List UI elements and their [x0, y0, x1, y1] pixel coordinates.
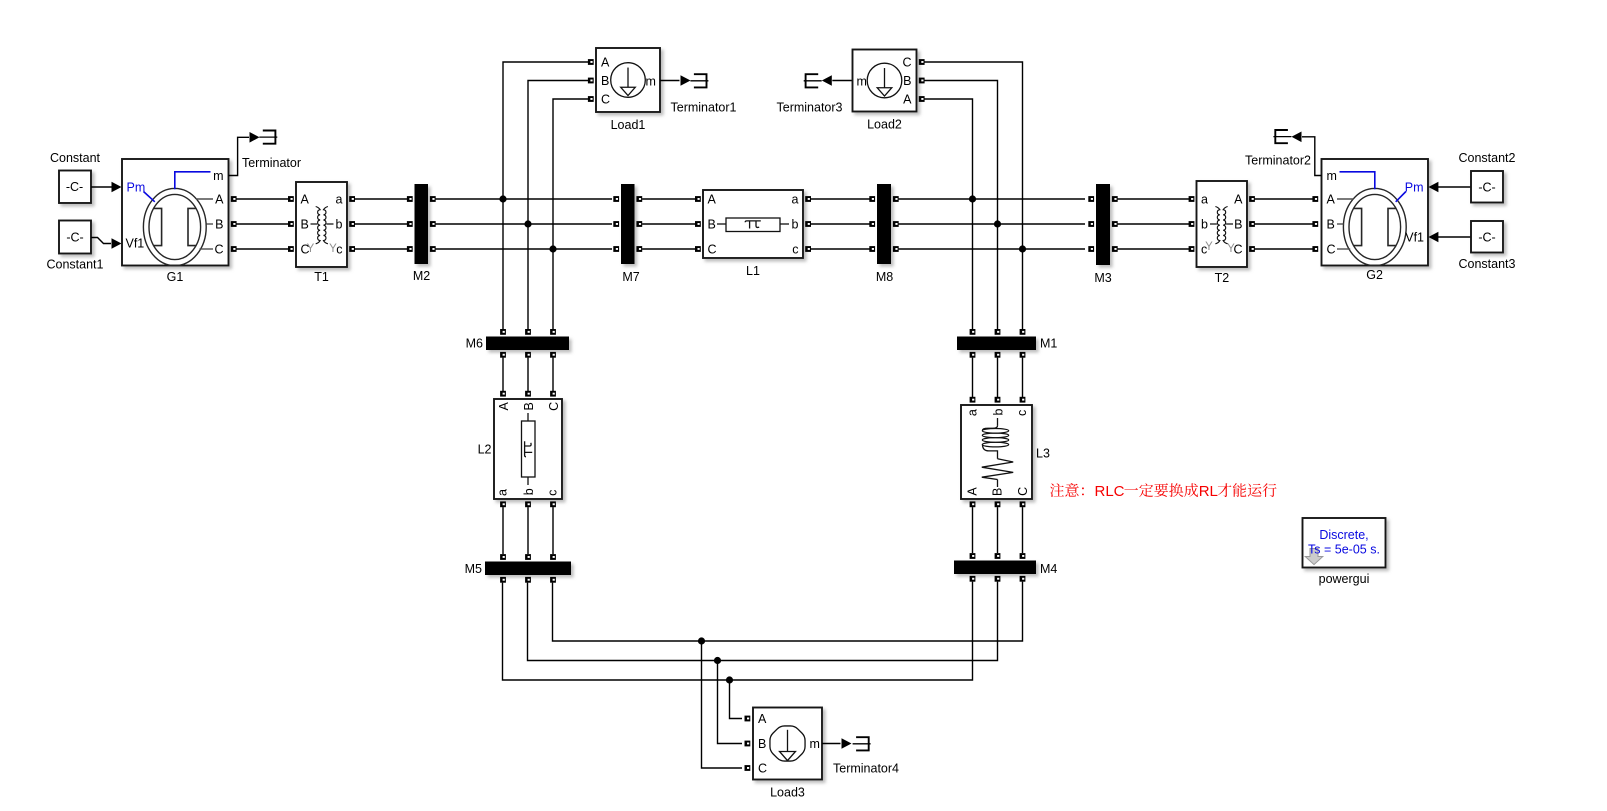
wire M2.C to M7.C: [436, 248, 612, 250]
port square L3 top 1: [970, 397, 976, 403]
port square M7.B left: [613, 221, 619, 227]
svg-text:Terminator: Terminator: [242, 156, 301, 170]
svg-text:G1: G1: [167, 270, 184, 284]
svg-text:RLC: RLC: [1095, 483, 1125, 500]
svg-text:B: B: [522, 402, 536, 410]
port square M1 bottom 3: [1020, 352, 1026, 358]
bus bar M3: [1096, 184, 1110, 265]
svg-text:L1: L1: [746, 264, 760, 278]
junction tap A at x503: [499, 195, 506, 202]
powergui gray arrow: [1305, 549, 1323, 565]
svg-text:Constant: Constant: [50, 151, 101, 165]
svg-text:A: A: [1327, 193, 1336, 207]
port square L1.A: [695, 196, 701, 202]
port square L1.c out: [805, 246, 811, 252]
port square L3 bottom 1: [970, 501, 976, 507]
svg-text:-C-: -C-: [1478, 231, 1495, 245]
bus bar M1: [957, 337, 1036, 351]
port square M6 bottom 2: [525, 352, 531, 358]
machine icon G1: [143, 188, 206, 265]
sink Terminator1: [690, 74, 708, 87]
port square L2 top 3: [550, 391, 556, 397]
wire M5.b to M4 mid: [528, 582, 998, 661]
svg-text:Terminator2: Terminator2: [1245, 154, 1311, 168]
svg-text:Vf1: Vf1: [126, 237, 145, 251]
port square T2.b: [1189, 221, 1195, 227]
svg-text:Y: Y: [329, 243, 337, 255]
svg-text:B: B: [991, 488, 1005, 496]
wire T1.b to M2.B: [350, 223, 409, 225]
port square M6 top 1: [500, 329, 506, 335]
svg-text:Load1: Load1: [611, 118, 646, 132]
port square M5 bottom 2: [525, 577, 531, 583]
wire tap A down to M1: [972, 199, 974, 329]
blue measurement pointer G1.m: [175, 172, 211, 189]
junction bottom C: [698, 637, 705, 644]
port square M7.C left: [613, 246, 619, 252]
svg-text:A: A: [1234, 193, 1243, 207]
junction tap A at x972.5: [969, 195, 976, 202]
stub L1.B to pi box: [717, 223, 726, 225]
svg-text:-C-: -C-: [66, 180, 83, 194]
pi section line L1 body: [703, 190, 803, 258]
port square L3 bottom 2: [995, 501, 1001, 507]
svg-text:m: m: [810, 737, 820, 751]
port square M2.C left: [407, 246, 413, 252]
svg-text:Ts = 5e-05 s.: Ts = 5e-05 s.: [1308, 543, 1380, 557]
svg-text:m: m: [213, 169, 223, 183]
load block Load3 body: [753, 708, 822, 780]
wire M3.C to T2: [1118, 248, 1191, 250]
wire Constant3 to G2.Vf1: [1438, 236, 1471, 238]
svg-text:c: c: [546, 490, 560, 496]
bus bar M7: [621, 184, 635, 264]
svg-text:Load2: Load2: [867, 118, 902, 132]
port square L2 top 1: [500, 391, 506, 397]
stub L2.B to pi box: [527, 413, 529, 421]
svg-text:B: B: [1234, 218, 1242, 232]
port square Load1.A: [588, 59, 594, 65]
port square M1 top 2: [995, 329, 1001, 335]
port square M8.B right: [893, 221, 899, 227]
synchronous machine G1 body: [122, 159, 229, 266]
wire Load1.A tap: [503, 62, 588, 329]
port square T1.B: [288, 221, 294, 227]
gray stub G1.B: [207, 223, 214, 225]
svg-text:A: A: [903, 93, 912, 107]
svg-text:B: B: [758, 737, 766, 751]
svg-text:M4: M4: [1040, 562, 1057, 576]
port square T1.a out: [349, 196, 355, 202]
port square M3.C left: [1088, 246, 1094, 252]
blue pointer G1.Pm: [144, 192, 155, 202]
wire G1.C to T1.C: [232, 248, 294, 250]
wire M6 to L2 phase 1: [502, 358, 504, 391]
svg-text:A: A: [215, 193, 224, 207]
port square M2.A right: [430, 196, 436, 202]
port square M1 bottom 2: [995, 352, 1001, 358]
port square T2.c: [1189, 246, 1195, 252]
wire T1.a to M2.A: [350, 198, 409, 200]
svg-text:C: C: [601, 93, 610, 107]
port square M6 top 3: [550, 329, 556, 335]
load block Load2 body: [853, 50, 917, 112]
port square L1.a out: [805, 196, 811, 202]
port square M4 top 1: [970, 553, 976, 559]
port square M6 bottom 1: [500, 352, 506, 358]
arrowhead into G1.Pm: [112, 182, 122, 193]
port square Load2.C: [919, 59, 925, 65]
wire M1 to L3 phase 2: [997, 358, 999, 397]
svg-text:Terminator4: Terminator4: [833, 762, 899, 776]
svg-text:G2: G2: [1366, 268, 1383, 282]
svg-text:A: A: [601, 56, 610, 70]
svg-text:b: b: [336, 218, 343, 232]
constant block Constant1: [59, 221, 91, 254]
port square L2 bottom 3: [550, 501, 556, 507]
wire Load3.m to Terminator4: [822, 743, 841, 745]
wire M6 to L2 phase 2: [527, 358, 529, 391]
port square M4 bottom 2: [995, 576, 1001, 582]
wire branch to Load3.A: [730, 680, 743, 719]
bus bar M6: [486, 337, 569, 351]
port square M3.B right: [1112, 221, 1118, 227]
port square M2.B left: [407, 221, 413, 227]
svg-text:M1: M1: [1040, 337, 1057, 351]
load block Load1 body: [596, 48, 660, 112]
svg-text:C: C: [758, 762, 767, 776]
port square M4 top 2: [995, 553, 1001, 559]
wire tap C down to M1: [1022, 249, 1024, 329]
svg-text:L3: L3: [1036, 447, 1050, 461]
port square M1 bottom 1: [970, 352, 976, 358]
port square Load1.B: [588, 78, 594, 84]
wire M2.A to M7.A: [436, 198, 612, 200]
port square M8.A right: [893, 196, 899, 202]
annotation red note: [1050, 483, 1277, 500]
svg-text:c: c: [336, 243, 342, 257]
port square G2.B: [1312, 221, 1318, 227]
port square M5 bottom 3: [550, 577, 556, 583]
svg-text:C: C: [214, 243, 223, 257]
wire M5.c to M4 right: [553, 582, 1023, 641]
svg-text:b: b: [1201, 218, 1208, 232]
wire tap B down to M1: [997, 224, 999, 329]
wire M8.B to M3.B: [899, 223, 1085, 225]
svg-text:m: m: [1327, 169, 1337, 183]
port square M5 top 1: [500, 554, 506, 560]
arrowhead into Terminator4: [842, 738, 852, 749]
port square G1.B: [231, 221, 237, 227]
wire M3.A to T2: [1118, 198, 1191, 200]
bus bar M8: [877, 184, 891, 264]
wire Constant1 to G1.Vf1: [91, 238, 111, 244]
stub coil to T2.B: [1226, 223, 1233, 225]
RL icon L3: [997, 418, 999, 426]
svg-text:Pm: Pm: [127, 181, 146, 195]
svg-text:M8: M8: [876, 270, 893, 284]
svg-text:powergui: powergui: [1319, 572, 1370, 586]
svg-text:B: B: [708, 218, 716, 232]
port square T2.B out: [1249, 221, 1255, 227]
sink Terminator: [259, 131, 277, 144]
wire Load2.m to Terminator3: [832, 80, 852, 82]
port square T2.C out: [1249, 246, 1255, 252]
svg-text:a: a: [336, 193, 343, 207]
port square M5 top 3: [550, 554, 556, 560]
stub T1.B to coil: [311, 223, 318, 225]
wire M8.C to M3.C: [899, 248, 1085, 250]
svg-text:T2: T2: [1215, 271, 1230, 285]
svg-text:c: c: [792, 243, 798, 257]
port square M4 bottom 1: [970, 576, 976, 582]
port square M2.C right: [430, 246, 436, 252]
machine icon G2: [1343, 188, 1406, 265]
port square M3.C right: [1112, 246, 1118, 252]
svg-text:RL: RL: [1199, 483, 1218, 500]
wire Constant2 to G2.Pm: [1438, 186, 1471, 188]
load icon Load3: [770, 726, 805, 761]
port square G1.C: [231, 246, 237, 252]
svg-text:Vf1: Vf1: [1405, 231, 1424, 245]
gray stub G2.B: [1337, 223, 1344, 225]
port square L1.C: [695, 246, 701, 252]
svg-text:Y: Y: [1205, 241, 1213, 253]
junction tap C at x553: [549, 245, 556, 252]
pi glyph L1: [745, 221, 761, 229]
port square M4 bottom 3: [1020, 576, 1026, 582]
port square M7.A left: [613, 196, 619, 202]
load icon Load1: [611, 63, 646, 98]
svg-text:Load3: Load3: [770, 786, 805, 800]
winding icon T2: [1215, 207, 1219, 244]
port square G2.C: [1312, 246, 1318, 252]
svg-text:Constant3: Constant3: [1459, 257, 1516, 271]
constant block Constant2: [1471, 171, 1503, 203]
svg-text:M7: M7: [622, 270, 639, 284]
arrowhead into G2.Pm: [1428, 182, 1438, 193]
wire G1.m to Terminator: [229, 137, 250, 175]
svg-text:Pm: Pm: [1405, 181, 1424, 195]
port square L2 bottom 1: [500, 501, 506, 507]
wire L3 to M4 phase 3: [1022, 507, 1024, 553]
wire M6 to L2 phase 3: [552, 358, 554, 391]
arrowhead into Terminator: [250, 132, 260, 143]
port square L3 bottom 3: [1020, 501, 1026, 507]
port square Load2.A: [919, 96, 925, 102]
stub T2.b to coil: [1210, 223, 1217, 225]
port square T1.C: [288, 246, 294, 252]
svg-text:B: B: [1327, 218, 1335, 232]
junction tap B at x997.5: [994, 220, 1001, 227]
blue pointer G2.Pm: [1396, 192, 1406, 202]
wire M7.C to L1.C: [642, 248, 698, 250]
svg-text:C: C: [1016, 487, 1030, 496]
port square T2.A out: [1249, 196, 1255, 202]
port square M5 top 2: [525, 554, 531, 560]
port square L1.b out: [805, 221, 811, 227]
blue measurement pointer G2.m: [1340, 172, 1375, 189]
bus bar M2: [415, 184, 429, 264]
svg-text:A: A: [301, 193, 310, 207]
port square M8.C right: [893, 246, 899, 252]
svg-text:a: a: [1201, 193, 1208, 207]
svg-text:A: A: [497, 401, 511, 410]
svg-text:C: C: [1327, 243, 1336, 257]
wire M8.A to M3.A: [899, 198, 1085, 200]
port square T1.c out: [349, 246, 355, 252]
port square L2 bottom 2: [525, 501, 531, 507]
svg-text:M2: M2: [413, 269, 430, 283]
svg-text:A: A: [758, 712, 767, 726]
wire M1 to L3 phase 1: [972, 358, 974, 397]
sink Terminator4: [853, 737, 871, 750]
port square M7.B right: [636, 221, 642, 227]
powergui block body: [1303, 518, 1386, 568]
port square M5 bottom 1: [500, 577, 506, 583]
svg-text:a: a: [792, 193, 799, 207]
port square M7.C right: [636, 246, 642, 252]
arrowhead into G2.Vf1: [1428, 232, 1438, 243]
pi glyph L2: [525, 441, 533, 457]
port square M2.A left: [407, 196, 413, 202]
svg-text:Terminator1: Terminator1: [671, 101, 737, 115]
wire Constant to G1.Pm: [91, 186, 112, 188]
wire T2.A to G2.A: [1255, 198, 1313, 200]
wire L3 to M4 phase 1: [972, 507, 974, 553]
junction tap C at x1022.5: [1019, 245, 1026, 252]
wire T2.C to G2.C: [1255, 248, 1313, 250]
stub pi box to L1.b: [780, 223, 789, 225]
port square M7.A right: [636, 196, 642, 202]
arrowhead into G1.Vf1: [112, 238, 122, 249]
wire M5.a to M4 left: [503, 582, 973, 680]
wire L1.c to M8: [808, 248, 872, 250]
port square Load2.B: [919, 78, 925, 84]
svg-text:m: m: [857, 75, 867, 89]
svg-text:T1: T1: [314, 270, 329, 284]
svg-text:-C-: -C-: [1478, 181, 1495, 195]
svg-text:C: C: [902, 56, 911, 70]
gray stub G2.A: [1337, 198, 1354, 200]
svg-text:Terminator3: Terminator3: [777, 101, 843, 115]
bus bar M4: [954, 561, 1036, 575]
svg-text:C: C: [547, 402, 561, 411]
svg-text:C: C: [708, 243, 717, 257]
port square Load1.C: [588, 96, 594, 102]
port square M8.A left: [869, 196, 875, 202]
port square M3.B left: [1088, 221, 1094, 227]
wire M3.B to T2: [1118, 223, 1191, 225]
port square M1 top 3: [1020, 329, 1026, 335]
pi section line L2 body: [494, 399, 562, 499]
port square G1.A: [231, 196, 237, 202]
stub pi box to L2.b: [527, 477, 529, 485]
junction tap B at x528: [524, 220, 531, 227]
port square L1.B: [695, 221, 701, 227]
wire L2 to M5 phase 2: [527, 507, 529, 554]
wire Load2.C tap: [924, 62, 1022, 246]
port square M8.B left: [869, 221, 875, 227]
sink Terminator3: [804, 74, 822, 87]
svg-text:m: m: [646, 75, 656, 89]
wire Load2.A tap: [924, 99, 972, 196]
svg-text:Constant1: Constant1: [47, 258, 104, 272]
svg-text:M6: M6: [466, 337, 483, 351]
wire L3 to M4 phase 2: [997, 507, 999, 553]
arrowhead into Terminator1: [681, 75, 691, 86]
wire G2.m to Terminator2: [1302, 137, 1322, 176]
port square T1.A: [288, 196, 294, 202]
port square T1.b out: [349, 221, 355, 227]
svg-text:B: B: [215, 218, 223, 232]
wire Load1.C tap: [553, 99, 588, 329]
gray stub G2.C: [1337, 248, 1350, 250]
wire T1.c to M2.C: [350, 248, 409, 250]
transformer T2 body: [1197, 181, 1248, 267]
port square M2.B right: [430, 221, 436, 227]
port square L3 top 3: [1020, 397, 1026, 403]
svg-text:M3: M3: [1094, 271, 1111, 285]
svg-text:-C-: -C-: [66, 231, 83, 245]
synchronous machine G2 body: [1322, 159, 1429, 266]
wire Load1.B tap: [528, 81, 588, 330]
port square T2.a: [1189, 196, 1195, 202]
series RL branch L3 body: [961, 405, 1032, 499]
constant block Constant: [59, 171, 91, 204]
transformer T1 body: [296, 182, 347, 267]
svg-text:B: B: [903, 74, 911, 88]
wire M1 to L3 phase 3: [1022, 358, 1024, 397]
port square Load3.B: [745, 741, 751, 747]
load icon Load2: [867, 63, 902, 98]
wire branch to Load3.B: [718, 661, 743, 744]
svg-text:M5: M5: [465, 562, 482, 576]
port square M1 top 1: [970, 329, 976, 335]
junction bottom B: [714, 657, 721, 664]
wire T2.B to G2.B: [1255, 223, 1313, 225]
wire G1.B to T1.B: [232, 223, 294, 225]
port square G2.A: [1312, 196, 1318, 202]
arrowhead into Terminator2: [1292, 132, 1302, 143]
wire G1.A to T1.A: [232, 198, 294, 200]
junction bottom A: [726, 676, 733, 683]
svg-text:B: B: [601, 74, 609, 88]
wire L1.a to M8: [808, 198, 872, 200]
gray stub G1.A: [196, 198, 213, 200]
svg-text:Discrete,: Discrete,: [1319, 528, 1368, 542]
wire M7.B to L1.B: [642, 223, 698, 225]
wire L1.b to M8: [808, 223, 872, 225]
svg-text:b: b: [792, 218, 799, 232]
wire M2.B to M7.B: [436, 223, 612, 225]
port square M6 top 2: [525, 329, 531, 335]
svg-text:A: A: [965, 487, 979, 496]
constant block Constant3: [1471, 221, 1503, 253]
sink Terminator2: [1273, 130, 1291, 143]
svg-text:Y: Y: [307, 243, 315, 255]
svg-text:b: b: [522, 488, 536, 495]
svg-text:c: c: [1015, 410, 1029, 416]
pi box L1: [726, 218, 780, 232]
port square L2 top 2: [525, 391, 531, 397]
wire Load1.m to Terminator1: [660, 80, 680, 82]
svg-text:L2: L2: [478, 443, 492, 457]
svg-text:a: a: [965, 409, 979, 416]
arrowhead into Terminator3: [822, 75, 832, 86]
svg-text:b: b: [991, 408, 1005, 415]
port square L3 top 2: [995, 397, 1001, 403]
